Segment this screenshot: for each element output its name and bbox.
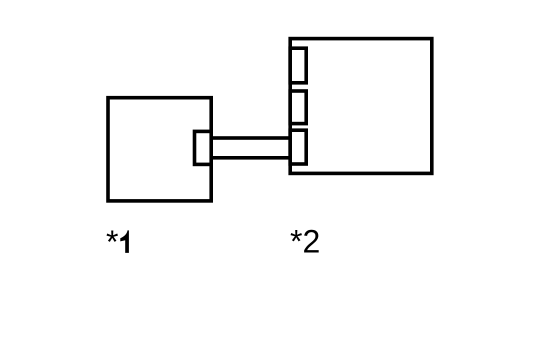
pin 3 of box *2 [290,130,306,164]
pin 1 of box *2 [290,48,306,83]
svg-text:*2: *2 [290,224,320,260]
connector on *1 [195,131,212,164]
component box *1 [108,98,211,201]
svg-text:*: * [106,224,118,260]
pin 2 of box *2 [290,91,306,124]
wire (cable between connector on box 1 and pin 3 of box 2) [207,138,291,158]
label *1 [106,224,129,260]
component box *2 [290,39,432,174]
